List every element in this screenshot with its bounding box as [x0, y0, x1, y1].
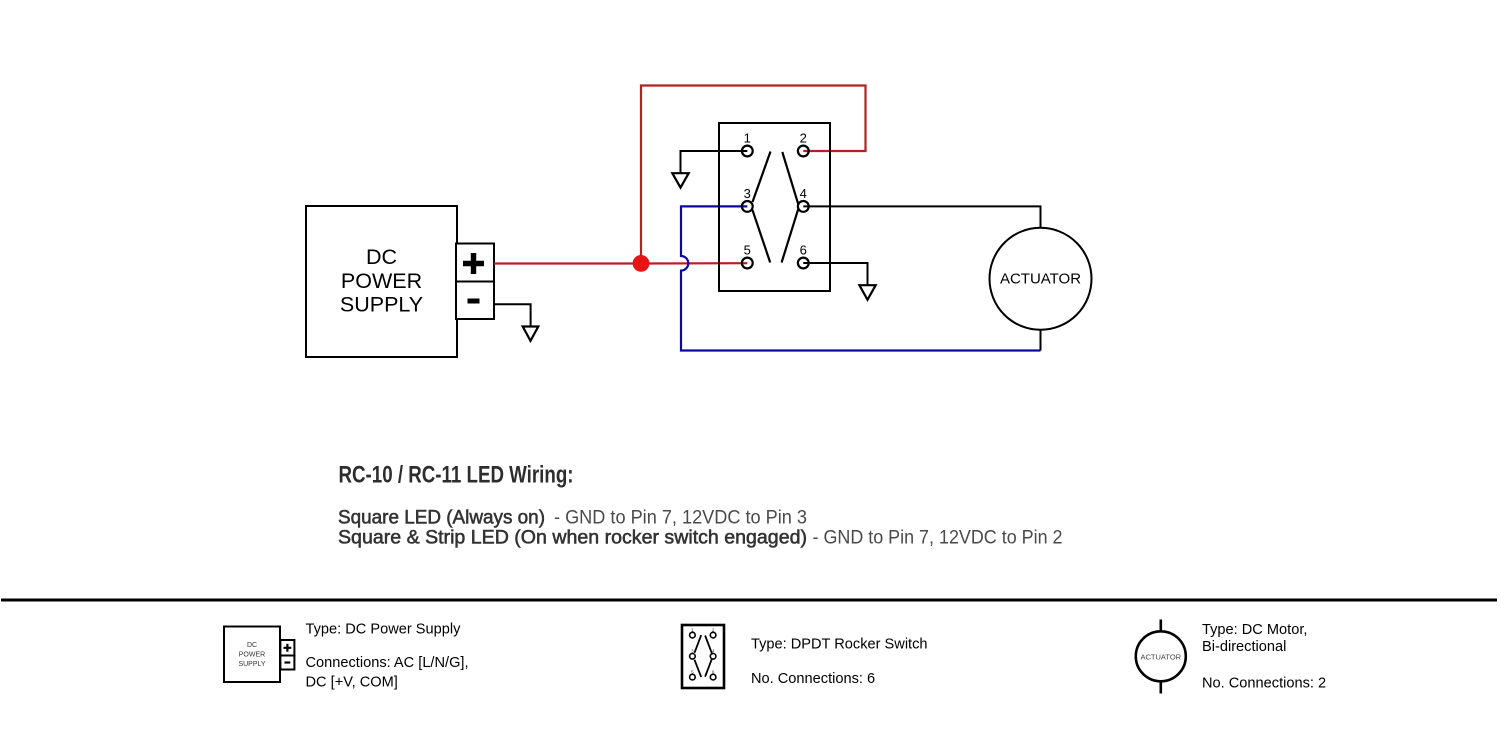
junction dot [633, 255, 650, 272]
legend text DPDT rocker switch [751, 637, 928, 687]
ground symbol at - terminal [523, 327, 539, 341]
pin 6 [798, 242, 809, 268]
DC power supply box [306, 206, 457, 357]
lever lower left [752, 210, 770, 263]
legend text DC motor [1202, 622, 1326, 692]
pin 3 [742, 186, 753, 212]
svg-text:SUPPLY: SUPPLY [238, 661, 265, 668]
wire red junction to pin 5 [641, 262, 747, 264]
legend terminal - [280, 656, 294, 670]
svg-text:DC: DC [366, 245, 397, 269]
svg-text:2: 2 [800, 130, 807, 145]
svg-text:- GND to Pin 7, 12VDC to Pin 3: - GND to Pin 7, 12VDC to Pin 3 [554, 508, 807, 529]
svg-text:Type: DC Motor,: Type: DC Motor, [1202, 622, 1307, 638]
rocker switch body [719, 123, 830, 291]
svg-text:RC-10 / RC-11 LED Wiring:: RC-10 / RC-11 LED Wiring: [339, 462, 574, 489]
svg-text:4: 4 [800, 186, 807, 201]
svg-text:Bi-directional: Bi-directional [1202, 639, 1286, 655]
svg-text:6: 6 [800, 242, 807, 257]
svg-text:- GND to Pin 7, 12VDC to Pin 2: - GND to Pin 7, 12VDC to Pin 2 [813, 528, 1063, 549]
terminal - [456, 282, 494, 320]
legend terminal + [280, 640, 294, 656]
terminal + [456, 244, 494, 282]
svg-text:Type: DPDT Rocker Switch: Type: DPDT Rocker Switch [751, 637, 928, 653]
wire blue pin 3 to actuator bottom [681, 206, 1041, 350]
svg-text:No. Connections: 6: No. Connections: 6 [751, 671, 875, 687]
svg-text:No. Connections: 2: No. Connections: 2 [1202, 676, 1326, 692]
wire black ground to pin 1 [681, 151, 748, 173]
wire red loop junction to pin 2 [641, 86, 866, 264]
wire black - terminal to ground [494, 304, 531, 326]
svg-text:Square LED (Always on): Square LED (Always on) [338, 508, 545, 529]
ground symbol at pin 1 [672, 173, 688, 187]
svg-text:POWER: POWER [341, 269, 422, 293]
svg-text:Type: DC Power Supply: Type: DC Power Supply [306, 622, 462, 638]
legend actuator icon [1136, 620, 1186, 694]
wire black pin 4 to actuator top [803, 206, 1040, 227]
legend divider [1, 599, 1497, 602]
svg-text:Connections: AC [L/N/G],: Connections: AC [L/N/G], [306, 655, 469, 671]
legend rocker switch icon [682, 625, 724, 688]
svg-text:POWER: POWER [239, 652, 265, 659]
legend text DC power supply [306, 622, 469, 691]
pin 1 [742, 130, 753, 156]
svg-text:DC: DC [247, 642, 257, 649]
wire black pin 6 to ground [803, 263, 867, 285]
pin 4 [798, 186, 809, 212]
svg-text:DC [+V, COM]: DC [+V, COM] [306, 674, 398, 690]
svg-text:Square & Strip LED (On when ro: Square & Strip LED (On when rocker switc… [338, 528, 807, 549]
legend DC power supply icon [224, 627, 280, 683]
lever upper left [753, 152, 771, 203]
svg-text:5: 5 [744, 242, 751, 257]
actuator M1 [990, 228, 1092, 330]
svg-text:ACTUATOR: ACTUATOR [1000, 271, 1081, 288]
wire red + to junction [494, 262, 641, 264]
pin 2 [798, 130, 809, 156]
wire black actuator bottom stub [1040, 330, 1042, 351]
pin 5 [742, 242, 753, 268]
lever upper right [782, 152, 798, 204]
svg-text:1: 1 [744, 130, 751, 145]
svg-text:3: 3 [744, 186, 751, 201]
lever lower right [782, 209, 799, 263]
svg-text:ACTUATOR: ACTUATOR [1141, 653, 1182, 662]
ground symbol at pin 6 [859, 285, 875, 300]
svg-text:SUPPLY: SUPPLY [340, 293, 423, 317]
